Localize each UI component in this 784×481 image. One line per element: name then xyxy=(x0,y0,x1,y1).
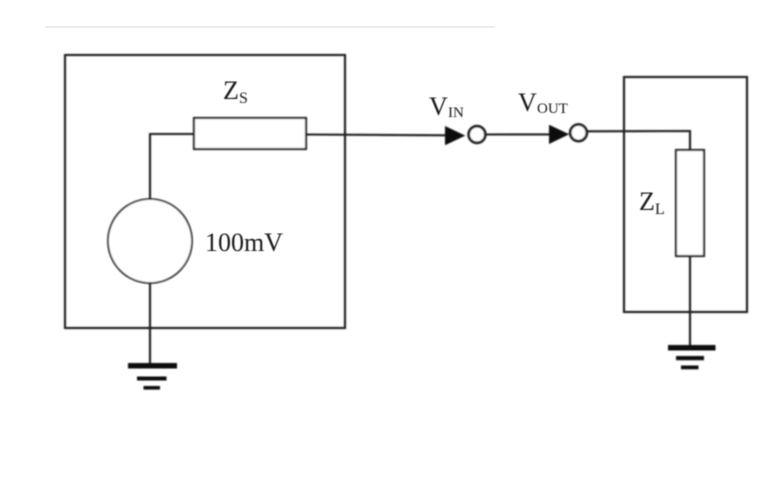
resistor ZL xyxy=(676,150,704,256)
svg-text:V: V xyxy=(518,88,537,117)
voltage source VS xyxy=(108,199,192,283)
wire: VOUT terminal to ZL top xyxy=(587,131,690,150)
resistor ZS xyxy=(194,118,306,149)
wire: VIN terminal to VOUT arrow xyxy=(485,133,550,135)
svg-text:100mV: 100mV xyxy=(205,228,283,257)
wire: ZL bottom to ground xyxy=(689,256,691,346)
ground (source side) xyxy=(128,363,177,390)
label VOUT xyxy=(518,88,568,117)
label ZL xyxy=(639,187,665,218)
wire: voltage source bottom to ground xyxy=(149,283,151,364)
source block enclosure xyxy=(65,55,345,328)
svg-text:V: V xyxy=(429,92,448,121)
ground (load side) xyxy=(668,345,716,369)
svg-text:L: L xyxy=(655,201,665,218)
arrow into VIN terminal xyxy=(445,126,465,145)
svg-text:OUT: OUT xyxy=(537,101,568,117)
svg-text:IN: IN xyxy=(448,105,464,121)
svg-text:S: S xyxy=(239,90,248,107)
arrow into VOUT terminal xyxy=(549,125,569,144)
label ZS xyxy=(223,76,248,107)
wire: ZS left terminal to voltage source top xyxy=(150,134,194,199)
svg-text:Z: Z xyxy=(639,187,655,216)
wire: ZS right terminal to VIN arrow xyxy=(306,133,447,136)
svg-text:Z: Z xyxy=(223,76,239,105)
label VIN xyxy=(429,92,464,121)
node VIN terminal xyxy=(469,126,486,143)
load block enclosure xyxy=(624,77,747,312)
node VOUT terminal xyxy=(570,125,587,142)
